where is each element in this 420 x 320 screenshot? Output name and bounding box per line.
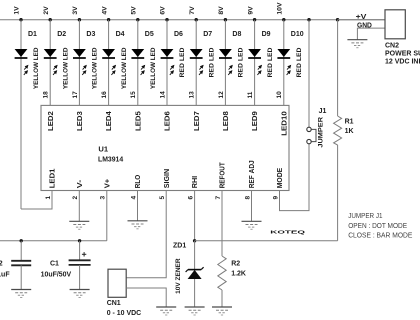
svg-text:C1: C1	[50, 261, 59, 268]
svg-text:8: 8	[244, 196, 251, 200]
svg-text:KOTEQ: KOTEQ	[270, 230, 305, 235]
svg-text:CN2: CN2	[385, 42, 399, 49]
pin 12 label	[218, 91, 225, 99]
wire pin7 REFOUT down	[221, 191, 223, 257]
pin 8 label	[244, 196, 251, 200]
svg-text:ZD1: ZD1	[173, 242, 186, 249]
pin name LED8	[223, 111, 230, 131]
svg-text:R2: R2	[231, 261, 240, 268]
pin name MODE	[277, 167, 284, 188]
svg-text:18: 18	[43, 91, 50, 99]
svg-text:YELLOW LED: YELLOW LED	[92, 47, 99, 89]
svg-text:POWER SUPPLY: POWER SUPPLY	[385, 51, 420, 58]
svg-text:RLO: RLO	[135, 174, 142, 188]
ground RLO	[128, 221, 148, 229]
svg-text:3: 3	[100, 196, 107, 200]
LED D3 yellow	[73, 20, 99, 106]
pin 10 label	[276, 91, 283, 99]
svg-text:1: 1	[45, 196, 52, 200]
svg-text:CN1: CN1	[107, 300, 121, 307]
node 9V tap	[247, 6, 256, 22]
pin name REFOUT	[220, 162, 227, 189]
svg-text:OPEN : DOT MODE: OPEN : DOT MODE	[348, 221, 407, 230]
jumper J1	[307, 20, 327, 148]
ground V-	[69, 221, 89, 229]
svg-text:D6: D6	[174, 31, 183, 38]
svg-text:LED7: LED7	[194, 111, 201, 131]
svg-text:LED1: LED1	[50, 168, 57, 188]
ground ZD1	[185, 307, 205, 315]
LED D4 yellow	[102, 20, 128, 106]
wire +V top bus	[0, 19, 385, 21]
pin name V-	[77, 179, 84, 188]
svg-text:LED4: LED4	[106, 111, 113, 131]
pin name REF ADJ	[249, 160, 256, 188]
svg-text:8V: 8V	[218, 6, 225, 15]
svg-text:15: 15	[130, 91, 137, 99]
resistor R1	[334, 20, 354, 241]
pin name RHI	[192, 176, 199, 189]
svg-text:16: 16	[101, 91, 108, 99]
svg-text:V+: V+	[104, 179, 111, 189]
node C2 junction	[20, 239, 23, 242]
svg-text:D9: D9	[262, 31, 271, 38]
pin 15 label	[130, 91, 137, 99]
pin 11 label	[247, 91, 254, 98]
node 2V tap	[43, 6, 52, 22]
svg-text:YELLOW LED: YELLOW LED	[150, 47, 157, 89]
ground C2	[11, 290, 31, 298]
connector CN2	[385, 10, 420, 66]
svg-text:D10: D10	[291, 31, 304, 38]
pin name LED9	[252, 111, 259, 131]
ground REF ADJ	[242, 221, 262, 229]
svg-text:LED5: LED5	[135, 111, 142, 131]
svg-text:RED LED: RED LED	[296, 47, 303, 77]
capacitor C1	[41, 241, 91, 290]
svg-text:7: 7	[215, 196, 222, 200]
pin 14 label	[159, 91, 166, 99]
svg-text:SIGIN: SIGIN	[164, 169, 171, 189]
svg-text:D7: D7	[203, 31, 212, 38]
svg-text:CLOSE : BAR MODE: CLOSE : BAR MODE	[348, 231, 412, 240]
LED D2 yellow	[44, 20, 70, 106]
svg-text:3V: 3V	[72, 6, 79, 15]
svg-text:U1: U1	[98, 145, 108, 154]
svg-text:C2: C2	[0, 261, 3, 268]
ground C1	[70, 290, 90, 298]
svg-text:9: 9	[272, 196, 279, 200]
svg-text:10V: 10V	[277, 2, 284, 15]
svg-text:LED10: LED10	[281, 111, 288, 136]
svg-text:10V ZENER: 10V ZENER	[175, 258, 182, 294]
svg-text:0.1uF: 0.1uF	[0, 271, 10, 278]
svg-text:RED LED: RED LED	[179, 47, 186, 77]
svg-text:6V: 6V	[160, 6, 167, 15]
pin name LED2	[48, 111, 55, 131]
wire pin1 to D1 cathode rail	[21, 191, 52, 210]
svg-text:10uF/50V: 10uF/50V	[41, 271, 72, 278]
connector CN1	[107, 269, 142, 317]
pin 18 label	[43, 91, 50, 99]
LED D8 red	[219, 20, 245, 106]
svg-text:5V: 5V	[131, 6, 138, 15]
wire pin5 SIGIN to CN1	[126, 191, 166, 278]
svg-text:D2: D2	[57, 31, 66, 38]
ground CN2	[347, 40, 367, 48]
resistor R2	[218, 256, 246, 307]
svg-text:RED LED: RED LED	[238, 47, 245, 77]
svg-text:4V: 4V	[101, 6, 108, 15]
svg-text:J1: J1	[319, 108, 327, 115]
pin name RLO	[135, 174, 142, 188]
pin name LED5	[135, 111, 142, 131]
pin name LED4	[106, 111, 113, 131]
svg-text:2: 2	[72, 196, 79, 200]
node 8V tap	[218, 6, 227, 22]
node 10V tap	[277, 2, 286, 21]
svg-text:4: 4	[130, 196, 137, 200]
svg-text:D5: D5	[145, 31, 154, 38]
svg-text:+V: +V	[356, 14, 367, 21]
svg-text:RHI: RHI	[192, 176, 199, 189]
svg-text:14: 14	[159, 91, 166, 99]
pin 9 label	[272, 196, 279, 200]
svg-text:7V: 7V	[189, 6, 196, 15]
svg-text:REFOUT: REFOUT	[220, 162, 227, 189]
svg-text:9V: 9V	[247, 6, 254, 15]
svg-text:1.2K: 1.2K	[231, 271, 246, 278]
node J1 bus junction	[307, 18, 310, 21]
ground R2	[212, 307, 232, 315]
svg-text:JUMPER: JUMPER	[317, 117, 324, 148]
svg-text:0 - 10 VDC: 0 - 10 VDC	[107, 310, 142, 317]
node R1 bus junction	[336, 18, 339, 21]
svg-text:2V: 2V	[43, 6, 50, 15]
pin name LED3	[77, 111, 84, 131]
svg-text:17: 17	[72, 91, 79, 99]
LED D7 red	[190, 20, 216, 106]
pin 2 label	[72, 196, 79, 200]
KOTEQ logo	[270, 230, 305, 235]
pin 5 label	[159, 196, 166, 200]
wire RHI rail to R1	[195, 240, 338, 242]
pin 3 label	[100, 196, 107, 200]
svg-text:MODE: MODE	[277, 167, 284, 188]
svg-text:GND: GND	[357, 23, 372, 30]
capacitor C2	[0, 241, 31, 290]
LED D6 red	[161, 20, 187, 106]
pin name V+	[104, 179, 111, 189]
ground CN1	[156, 307, 176, 315]
op-amp U1 LM3914 body	[41, 105, 289, 190]
svg-text:LED9: LED9	[252, 111, 259, 131]
svg-text:R1: R1	[345, 118, 354, 125]
svg-text:1V: 1V	[14, 6, 21, 15]
svg-text:YELLOW LED: YELLOW LED	[121, 47, 128, 89]
node 5V tap	[131, 6, 140, 22]
svg-text:12: 12	[218, 91, 225, 99]
pin name LED10	[281, 111, 288, 136]
svg-text:D1: D1	[28, 31, 37, 38]
svg-text:YELLOW LED: YELLOW LED	[62, 47, 69, 89]
node ZD1 junction	[193, 239, 196, 242]
pin 1 label	[45, 196, 52, 200]
svg-text:LED2: LED2	[48, 111, 55, 131]
wire pin9 MODE to J1	[280, 144, 310, 211]
svg-text:1K: 1K	[345, 128, 354, 135]
jumper mode note	[348, 211, 412, 239]
node C1 junction	[78, 239, 81, 242]
svg-text:RED LED: RED LED	[267, 47, 274, 77]
wire CN1 gnd pin	[126, 288, 166, 307]
LED D5 yellow	[131, 20, 157, 106]
wire +V to CN2	[338, 14, 385, 21]
svg-text:12 VDC INPUT: 12 VDC INPUT	[385, 58, 420, 65]
node 6V tap	[160, 6, 169, 22]
svg-text:LM3914: LM3914	[98, 155, 124, 164]
svg-text:YELLOW LED: YELLOW LED	[33, 47, 40, 89]
pin name LED6	[165, 111, 172, 131]
pin name LED7	[194, 111, 201, 131]
svg-text:LED3: LED3	[77, 111, 84, 131]
wire pin8 REFADJ to ground	[251, 191, 253, 222]
node 4V tap	[101, 6, 110, 22]
svg-text:RED LED: RED LED	[208, 47, 215, 77]
LED D1 yellow	[15, 20, 41, 209]
wire pin3 V+ down	[106, 191, 108, 241]
wire V+ rail left	[0, 240, 107, 242]
LED D9 red	[248, 20, 274, 106]
node 1V tap	[14, 6, 23, 22]
LED D10 red	[277, 20, 303, 106]
wire pin2 V- to ground	[78, 191, 80, 222]
wire pin6 RHI down	[194, 191, 196, 241]
svg-text:6: 6	[187, 196, 194, 200]
node 3V tap	[72, 6, 81, 22]
node 7V tap	[189, 6, 198, 22]
wire GND to CN2	[357, 23, 385, 40]
svg-text:10: 10	[276, 91, 283, 99]
svg-text:13: 13	[189, 91, 196, 99]
svg-text:D4: D4	[116, 31, 125, 38]
svg-text:11: 11	[247, 91, 254, 98]
pin name SIGIN	[164, 169, 171, 189]
pin name LED1	[50, 168, 57, 188]
svg-text:D8: D8	[232, 31, 241, 38]
pin 16 label	[101, 91, 108, 99]
pin 6 label	[187, 196, 194, 200]
svg-text:LED8: LED8	[223, 111, 230, 131]
wire pin4 RLO to ground	[137, 191, 139, 221]
zener ZD1	[173, 241, 204, 307]
pin 7 label	[215, 196, 222, 200]
svg-text:REF ADJ: REF ADJ	[249, 160, 256, 188]
pin 13 label	[189, 91, 196, 99]
svg-text:5: 5	[159, 196, 166, 200]
svg-text:D3: D3	[86, 31, 95, 38]
pin 4 label	[130, 196, 137, 200]
pin 17 label	[72, 91, 79, 99]
svg-text:V-: V-	[77, 179, 84, 188]
svg-text:JUMPER J1: JUMPER J1	[348, 211, 382, 220]
svg-text:LED6: LED6	[165, 111, 172, 131]
